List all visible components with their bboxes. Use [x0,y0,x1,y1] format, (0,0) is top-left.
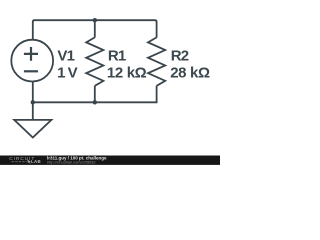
resistor R1 [86,37,103,85]
svg-text:R1: R1 [108,47,126,64]
svg-text:LAB: LAB [31,159,41,164]
voltage source V1 circle [11,40,53,82]
node: junction dot bottom-left (V1/ground/bottom rail) [31,100,35,104]
footer CircuitLab logo line LAB [12,161,27,163]
svg-text:1 V: 1 V [57,64,78,81]
wire V1 bottom lead [32,82,34,103]
svg-text:28 kΩ: 28 kΩ [170,64,210,81]
node: junction dot bottom (R1/bottom rail) [93,100,97,104]
footer watermark bar [0,156,220,165]
svg-text:V1: V1 [57,47,74,64]
svg-text:12 kΩ: 12 kΩ [107,64,147,81]
V1 minus symbol [24,70,38,72]
wire bottom rail: V1 bottom to R2 bottom [33,86,157,103]
wire R1 bottom lead [94,86,96,103]
resistor R2 [148,37,165,85]
node: junction dot top (R1/top rail) [93,18,97,22]
wire R1 top lead [94,20,96,37]
V1 plus symbol [24,47,38,61]
ground [14,102,51,137]
svg-text:http://circuitlab.com/c956t3d: http://circuitlab.com/c956t3d [47,160,95,165]
svg-text:R2: R2 [171,47,189,64]
wire top rail: V1 top to R2 top [33,20,157,40]
